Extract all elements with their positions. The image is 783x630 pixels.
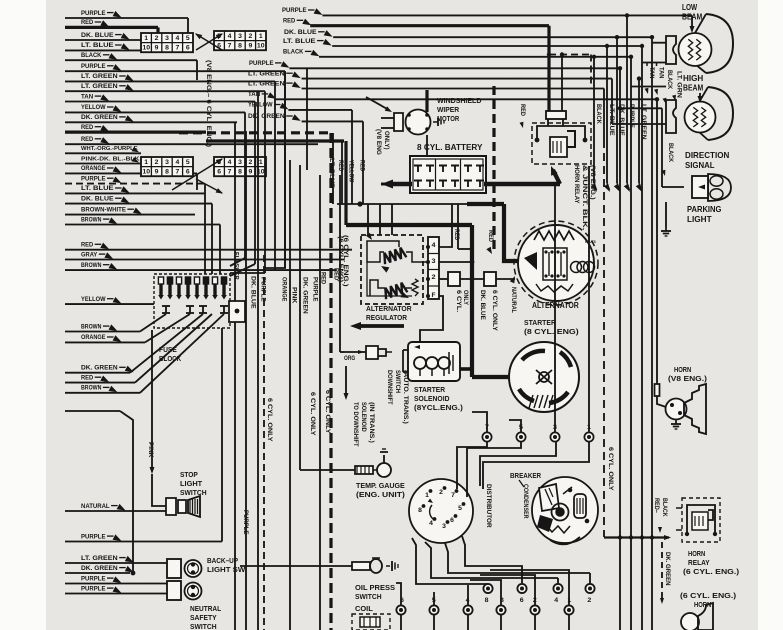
connector block C4 (lower, engine side) <box>214 157 266 176</box>
svg-text:DK. GREEN: DK. GREEN <box>81 365 118 372</box>
wiper brush feed stubs <box>381 117 394 119</box>
svg-text:LT. BLUE: LT. BLUE <box>283 38 316 45</box>
svg-text:HORN: HORN <box>688 549 705 558</box>
svg-text:MOTOR: MOTOR <box>437 114 460 123</box>
breaker condenser circle <box>532 477 598 543</box>
high beam feed arrow <box>699 93 701 99</box>
svg-text:6: 6 <box>186 45 190 52</box>
svg-text:(V8 ENG.): (V8 ENG.) <box>589 165 596 200</box>
svg-text:LT. GREEN: LT. GREEN <box>81 555 118 562</box>
svg-text:BACK–UP: BACK–UP <box>207 556 238 565</box>
svg-text:BLACK: BLACK <box>666 70 673 90</box>
thick bus y=225 <box>346 223 472 227</box>
svg-text:HORN: HORN <box>674 365 691 374</box>
wire DK. GREEN (left bottom stack) y=573 <box>65 572 130 574</box>
low beam feed arrow <box>691 15 693 30</box>
svg-text:7: 7 <box>176 45 180 52</box>
svg-text:HORN RELAY: HORN RELAY <box>573 165 580 204</box>
svg-text:LT. BLUE: LT. BLUE <box>81 42 114 49</box>
svg-text:10: 10 <box>142 169 150 176</box>
solenoid left bracket <box>403 349 408 351</box>
thin vertical into relay cap <box>561 55 563 112</box>
svg-text:DK. BLUE: DK. BLUE <box>250 276 257 309</box>
temp gauge feed <box>300 469 355 471</box>
svg-text:(6 CYL. ENG.): (6 CYL. ENG.) <box>683 567 740 576</box>
wire BLACK (second stack) y=56.8 <box>319 56 631 58</box>
svg-text:CONDENSER: CONDENSER <box>522 484 529 519</box>
alternator stator zigzag top <box>534 231 574 240</box>
svg-text:10: 10 <box>257 43 265 50</box>
svg-text:TAN: TAN <box>648 67 655 79</box>
svg-text:8: 8 <box>165 169 169 176</box>
thick red vertical x=549 <box>547 26 550 111</box>
wire PURPLE (second stack) y=68.3 <box>289 67 620 69</box>
svg-text:PURPLE: PURPLE <box>81 175 106 182</box>
wire PURPLE (second stack) y=15.4 <box>322 14 692 16</box>
wire DK. BLUE (second stack) y=37.2 <box>333 36 652 38</box>
svg-text:3: 3 <box>165 159 169 166</box>
svg-text:NEUTRAL: NEUTRAL <box>190 604 222 613</box>
wire PURPLE (left stack) y=18 <box>65 17 188 19</box>
bus y=204 thin part <box>337 203 467 205</box>
svg-text:LIGHT: LIGHT <box>687 215 712 224</box>
vertical wire x=258 <box>257 91 259 630</box>
wire DK. BLUE (left stack) y=203.6 <box>65 203 212 205</box>
alternator inner circle <box>518 225 594 301</box>
svg-text:FLASHER: FLASHER <box>233 252 240 280</box>
wire LT. BLUE (second stack) y=46.0 <box>332 45 642 47</box>
terminal 2 wire with inline connectors <box>439 278 448 280</box>
svg-text:8: 8 <box>165 45 169 52</box>
alternator diode fan left <box>524 252 537 270</box>
distributor rotor arrow <box>430 505 433 519</box>
vertical x657 horn V8 feed <box>656 99 658 381</box>
wire PINK-DK. BL.-BLK. (left stack) y=163.5 <box>65 163 141 165</box>
crossover arrows between C3 and C4 <box>172 159 222 190</box>
svg-text:BROWN-WHITE: BROWN-WHITE <box>81 206 126 213</box>
svg-text:3: 3 <box>442 523 446 530</box>
svg-text:ALTERNATOR: ALTERNATOR <box>366 304 412 313</box>
verticals feeding regulator top <box>367 204 369 235</box>
svg-text:7: 7 <box>451 492 455 499</box>
wire RED thick dashed continuation y=133 <box>179 131 330 134</box>
svg-text:4: 4 <box>432 242 436 249</box>
vertical wire x=300 <box>299 165 301 470</box>
mini label TAN 2 <box>656 63 658 67</box>
RED label near x458 vertical <box>457 204 459 249</box>
svg-text:(IN TRANS.): (IN TRANS.) <box>368 402 375 443</box>
battery box <box>410 156 486 193</box>
wire unlabeled (left mid stack) y=411 <box>65 410 120 412</box>
spark terminal row A circles 8 6 4 2 <box>483 584 492 593</box>
svg-text:PURPLE: PURPLE <box>249 60 274 67</box>
svg-text:1: 1 <box>567 597 571 604</box>
svg-text:8: 8 <box>485 597 489 604</box>
elbow PURPLE wire to vertical x285 <box>284 71 286 268</box>
svg-text:9: 9 <box>249 169 253 176</box>
terminal 3 vertical through alternator <box>554 184 556 432</box>
wire BROWN (left mid stack) y=392.8 <box>65 392 140 394</box>
svg-text:DISTRIBUTOR: DISTRIBUTOR <box>485 484 492 528</box>
svg-text:LIGHT SW.: LIGHT SW. <box>207 565 247 574</box>
svg-text:2: 2 <box>533 597 537 604</box>
vertical wire x=340 <box>339 175 341 352</box>
svg-text:BREAKER: BREAKER <box>510 471 542 480</box>
terminal 4 wire to bus <box>439 204 452 247</box>
svg-text:BLACK: BLACK <box>661 498 668 517</box>
svg-text:BLACK: BLACK <box>81 52 101 59</box>
staircase elbows second stack to right verticals <box>651 37 653 630</box>
vertical wire x=246 <box>245 131 247 630</box>
horn relay V8 top cap <box>546 111 566 119</box>
svg-text:(6 CYL. ENG): (6 CYL. ENG) <box>337 236 344 282</box>
left stack verticals into fuse top <box>264 91 266 273</box>
svg-text:RED: RED <box>453 229 460 241</box>
ground below parking light <box>665 202 667 227</box>
svg-text:PINK: PINK <box>291 287 298 303</box>
fuse entries from upper-left staircase <box>236 122 238 252</box>
svg-text:4: 4 <box>176 159 180 166</box>
terminal F wire down to solenoid <box>420 296 443 342</box>
svg-text:8: 8 <box>238 43 242 50</box>
svg-text:6 CYL. ONLY: 6 CYL. ONLY <box>607 447 614 491</box>
oil press switch feed <box>240 565 352 567</box>
svg-text:YELLOW: YELLOW <box>81 296 106 303</box>
svg-text:DK. BLUE: DK. BLUE <box>81 32 114 39</box>
svg-text:RED–: RED– <box>653 498 660 513</box>
svg-text:6 CYL. ONLY: 6 CYL. ONLY <box>324 390 331 434</box>
wire PURPLE (left stack) y=183.6 <box>65 183 205 185</box>
downshift switch symbol <box>344 351 366 353</box>
svg-text:REGULATOR: REGULATOR <box>366 313 407 322</box>
wire YELLOW (left mid stack) y=304.1 <box>65 303 154 305</box>
svg-text:SWITCH: SWITCH <box>190 622 217 630</box>
wire LT. GREEN (left stack) y=81.4 <box>65 80 275 82</box>
vertical wire x=285 <box>284 71 286 268</box>
svg-text:RELAY: RELAY <box>688 558 710 567</box>
wire DK. GREEN (left stack) y=122.3 <box>65 121 237 123</box>
vertical wire x=275 <box>274 81 276 270</box>
pink label and vertical to stop light switch <box>151 330 153 468</box>
svg-text:1: 1 <box>144 35 148 42</box>
wiper motor brush rect <box>394 113 403 131</box>
crossover arrows between C1 and C2 <box>196 34 222 50</box>
high beam bracket <box>666 100 676 133</box>
wire DK. GREEN (left mid stack) y=372.7 <box>65 372 130 374</box>
svg-text:DK. GREEN: DK. GREEN <box>302 277 309 314</box>
svg-text:ORANGE: ORANGE <box>81 334 106 341</box>
direction signal feed <box>620 107 662 109</box>
svg-text:SOLENOID: SOLENOID <box>360 402 367 432</box>
vertical wire DK. BLUE x=617 <box>616 37 618 183</box>
vertical wire x=320 <box>319 175 321 630</box>
svg-text:LT. BLUE: LT. BLUE <box>608 104 615 136</box>
wire terminal3 to distributor <box>480 442 556 486</box>
wire WHT.-ORG.-PURPLE (left stack) y=153.3 <box>65 152 141 154</box>
horn relay V8 internals <box>537 126 585 140</box>
svg-text:DK. GREEN: DK. GREEN <box>248 113 285 120</box>
svg-text:PURPLE: PURPLE <box>282 7 307 14</box>
vertical x604 dashed 6CYL to horn relay <box>603 89 605 141</box>
svg-text:DK. BLUE: DK. BLUE <box>81 195 114 202</box>
wire stub RED thick into C1 top <box>156 27 159 33</box>
vertical wire BLACK x=594 <box>593 57 595 183</box>
vertical wire LT. GREEN x=639 <box>638 79 640 183</box>
horn V8 ground <box>675 419 677 422</box>
svg-text:LT. BLUE: LT. BLUE <box>81 185 114 192</box>
svg-text:DOWNSHIFT: DOWNSHIFT <box>386 370 393 405</box>
solenoid top arrow tick <box>414 345 420 349</box>
back-up light switch unit <box>167 559 181 578</box>
svg-text:9: 9 <box>155 169 159 176</box>
flasher component <box>229 301 245 322</box>
starter center <box>539 372 549 382</box>
svg-text:DK. BLUE: DK. BLUE <box>284 29 317 36</box>
svg-text:RED: RED <box>81 124 93 131</box>
svg-text:RED: RED <box>320 272 327 284</box>
bus y=204 thick part and elbow to alternator <box>467 202 504 206</box>
svg-text:DK. BLUE: DK. BLUE <box>618 104 625 136</box>
wire DK. GREEN (second stack) y=121.4 <box>302 120 363 122</box>
battery cable left with arrow <box>392 182 412 187</box>
svg-text:RED: RED <box>359 160 366 172</box>
vertical wire x=290 <box>289 160 291 630</box>
svg-text:2: 2 <box>155 35 159 42</box>
svg-text:BLACK: BLACK <box>283 49 303 56</box>
svg-text:BROWN: BROWN <box>81 385 101 392</box>
svg-text:PURPLE: PURPLE <box>81 575 106 582</box>
svg-text:BLACK: BLACK <box>667 143 674 163</box>
vertical wire x=331 <box>329 133 332 630</box>
horn relay 6cyl terminals <box>676 507 682 509</box>
wire PURPLE (left bottom stack) y=593.5 <box>65 593 167 595</box>
big left arrow under regulator <box>360 324 404 328</box>
wire BROWN (left stack) y=224.5 <box>65 224 220 226</box>
svg-text:HEUTS: HEUTS <box>585 240 596 244</box>
svg-text:9: 9 <box>155 45 159 52</box>
battery cable right to horn relay <box>484 182 560 187</box>
windshield wiper motor circle <box>406 110 431 135</box>
vertical x612 high-beam feed <box>611 79 613 124</box>
purple wire vertical x=222 <box>221 328 223 542</box>
svg-text:LT. GREEN: LT. GREEN <box>248 80 285 87</box>
solenoid coil loops <box>414 357 426 369</box>
svg-text:PURPLE: PURPLE <box>81 533 106 540</box>
svg-text:5: 5 <box>186 35 190 42</box>
svg-text:RED: RED <box>487 230 494 242</box>
svg-text:RED: RED <box>81 374 93 381</box>
svg-text:6: 6 <box>400 597 404 604</box>
svg-text:3: 3 <box>238 33 242 40</box>
fuse block fan-out diagonals <box>140 316 170 332</box>
regulator internal wiring and coils <box>367 241 399 247</box>
distributor circle <box>409 479 473 543</box>
wire RED (left mid stack) y=382.6 <box>65 382 135 384</box>
wire YELLOW (second stack) y=109.9 <box>288 109 352 111</box>
dashed feed from thick vertical <box>549 54 591 56</box>
svg-text:PINK: PINK <box>147 442 154 458</box>
high beam bulb <box>685 102 716 133</box>
svg-text:(V8 ENG: (V8 ENG <box>375 129 382 155</box>
low beam feed steps <box>652 42 666 44</box>
horn relay 6cyl internals <box>687 505 715 534</box>
svg-text:7: 7 <box>228 43 232 50</box>
svg-text:SWITCH: SWITCH <box>355 592 382 601</box>
6cyl horn body <box>681 613 699 630</box>
wire NATURAL (left bottom stack) y=511 <box>65 510 166 512</box>
starter field winding arcs <box>522 351 545 360</box>
svg-text:BROWN: BROWN <box>81 216 101 223</box>
svg-text:(ENG. UNIT): (ENG. UNIT) <box>356 490 405 499</box>
svg-text:2: 2 <box>432 274 436 281</box>
svg-text:6: 6 <box>450 517 454 524</box>
terminal 5 wire up elbow <box>509 420 521 432</box>
svg-text:7: 7 <box>176 169 180 176</box>
direction signal socket <box>692 176 708 198</box>
wire RED (left stack) y=144.2 <box>65 143 318 145</box>
svg-text:GRAY: GRAY <box>81 251 98 258</box>
svg-text:4: 4 <box>228 159 232 166</box>
vertical wire PURPLE x=627 <box>626 15 628 183</box>
svg-text:LOW: LOW <box>682 2 697 12</box>
wire stub ORANGE down <box>196 173 198 190</box>
svg-text:PURPLE: PURPLE <box>312 277 319 302</box>
svg-text:ORANGE: ORANGE <box>281 277 288 302</box>
svg-text:SAFETY: SAFETY <box>190 613 217 622</box>
wire RED (left stack) y=132.1 <box>65 131 206 134</box>
horn V8 resistor <box>655 384 660 396</box>
svg-text:TAN: TAN <box>658 67 665 79</box>
row B feed stubs <box>433 592 435 606</box>
wire terminal5 to distributor <box>467 442 521 497</box>
low beam bracket <box>666 36 676 64</box>
svg-text:DK. GREEN: DK. GREEN <box>81 114 118 121</box>
alternator regulator terminal column <box>428 237 439 299</box>
battery-area verticals with labels LT BLUE/RED/YELLOW/RED <box>332 133 334 204</box>
starter circle <box>509 342 579 412</box>
wire RED (left mid stack) y=249.7 <box>65 249 352 251</box>
svg-text:STARTER: STARTER <box>414 385 446 394</box>
wire LT. BLUE (left stack) y=50.4 <box>65 49 141 51</box>
svg-text:3: 3 <box>165 35 169 42</box>
wire terminal1 to distributor <box>483 442 589 489</box>
svg-text:8: 8 <box>418 507 422 514</box>
wire GRAY (left mid stack) y=259.5 <box>65 259 344 261</box>
svg-text:RED: RED <box>283 18 295 25</box>
svg-text:BROWN: BROWN <box>81 262 101 269</box>
terminal 1 vertical from relay area <box>588 166 590 432</box>
svg-text:3: 3 <box>238 159 242 166</box>
svg-text:1: 1 <box>259 33 263 40</box>
svg-text:SWITCH: SWITCH <box>180 488 207 497</box>
svg-text:RED: RED <box>337 160 344 172</box>
svg-text:BEAM: BEAM <box>683 83 703 93</box>
svg-text:YELLOW: YELLOW <box>81 104 106 111</box>
thick wire y=377 solenoid to starter <box>459 367 472 371</box>
thick vertical riser x=348 to bus <box>344 141 347 225</box>
wire thick solid y=141 <box>206 139 344 142</box>
svg-text:PURPLE: PURPLE <box>81 10 106 17</box>
svg-text:1: 1 <box>144 159 148 166</box>
svg-text:& JUNCT. BLK.: & JUNCT. BLK. <box>581 165 588 231</box>
wire ORANGE (left stack) y=173.4 <box>65 172 197 174</box>
wire LT. GREEN (left stack) y=91.2 <box>65 90 265 92</box>
horn relay V8 junction block dashed box <box>532 123 591 164</box>
svg-text:1: 1 <box>259 159 263 166</box>
svg-text:2: 2 <box>249 159 253 166</box>
thick vertical x=472 down to starter <box>470 225 474 377</box>
svg-text:NATURAL: NATURAL <box>81 503 110 510</box>
svg-text:DK. GREEN: DK. GREEN <box>81 565 118 572</box>
wire stub BLACK down <box>196 60 198 80</box>
coil dashed box <box>352 614 390 630</box>
svg-text:DK. GREEN: DK. GREEN <box>664 552 671 586</box>
svg-text:5: 5 <box>458 505 462 512</box>
svg-text:LT. GREEN: LT. GREEN <box>640 104 647 140</box>
svg-text:6 CYL. ONLY: 6 CYL. ONLY <box>309 392 316 436</box>
svg-text:8: 8 <box>238 169 242 176</box>
wire stub PURPLE into C1 top <box>187 18 189 33</box>
fuse block lower terminals <box>162 305 170 307</box>
svg-text:(8YCL.ENG.): (8YCL.ENG.) <box>414 403 463 412</box>
low beam headlamp reflector <box>706 14 733 73</box>
svg-text:STARTER: STARTER <box>524 318 556 327</box>
downshift feed from vertical x332 <box>332 133 344 352</box>
high beam reflector <box>708 87 733 140</box>
alternator center grid <box>543 248 567 280</box>
svg-text:NATURAL: NATURAL <box>510 287 517 313</box>
svg-text:ORG: ORG <box>344 355 355 362</box>
svg-text:BROWN: BROWN <box>81 323 101 330</box>
wire BLACK (left stack) y=60.2 <box>65 59 197 61</box>
distributor wires down to spark terminal row A <box>412 538 488 584</box>
regulator frame lines <box>367 247 384 262</box>
low beam headlamp bulb <box>679 33 712 66</box>
svg-text:6: 6 <box>186 169 190 176</box>
wire LT. GREEN (second stack) y=78.6 <box>302 78 612 80</box>
svg-text:2: 2 <box>249 33 253 40</box>
svg-text:WHT.-ORG.-PURPLE: WHT.-ORG.-PURPLE <box>81 146 138 152</box>
svg-text:RED: RED <box>519 104 526 116</box>
svg-text:6 CYL.: 6 CYL. <box>455 290 462 313</box>
terminal 7 wire up to thick vertical <box>472 412 487 432</box>
svg-text:4: 4 <box>176 35 180 42</box>
alternator field loops bottom <box>536 284 573 292</box>
svg-text:OIL PRESS: OIL PRESS <box>355 583 395 592</box>
vertical wire LT. BLUE x=607 <box>606 46 608 183</box>
svg-text:PURPLE: PURPLE <box>81 585 106 592</box>
wire LT. GREEN (left bottom stack) y=563 <box>65 562 167 564</box>
svg-text:6: 6 <box>217 169 221 176</box>
connector block C1 (firewall, body side) <box>141 33 193 52</box>
svg-text:LIGHT: LIGHT <box>180 479 203 488</box>
direction signal lamp body <box>708 174 731 201</box>
svg-text:(8 CYL. ENG): (8 CYL. ENG) <box>524 327 579 336</box>
svg-text:3: 3 <box>500 597 504 604</box>
svg-text:WIPER: WIPER <box>437 105 460 114</box>
svg-text:SOLENOID: SOLENOID <box>414 394 450 403</box>
solenoid hatch right <box>448 352 450 374</box>
svg-text:3: 3 <box>432 258 436 265</box>
svg-text:PURPLE: PURPLE <box>628 104 635 128</box>
wiper motor ground ticks <box>433 121 438 123</box>
svg-text:ONLY): ONLY) <box>383 131 390 150</box>
horn relay 6cyl feed horizontal y=537 <box>604 536 669 538</box>
unlabeled wire diagonal to x133 vertical <box>120 411 133 573</box>
svg-text:COIL: COIL <box>355 604 373 613</box>
thick dashed vertical x=494 <box>492 86 495 249</box>
svg-text:5: 5 <box>186 159 190 166</box>
